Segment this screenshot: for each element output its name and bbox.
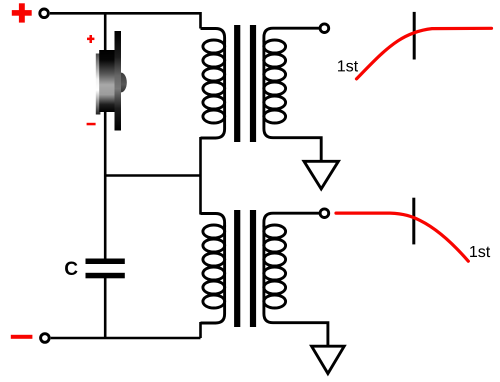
- input terminal (−): [41, 334, 50, 343]
- label − (speaker polarity): [87, 123, 96, 126]
- wire capacitor to bottom rail: [104, 278, 107, 338]
- wire mid horizontal: [105, 174, 200, 177]
- scope tick 1: [413, 12, 416, 60]
- transformer T2 secondary winding: [264, 213, 328, 346]
- wire T1 to T2 link: [199, 137, 202, 215]
- waveform trace 2: [336, 213, 468, 261]
- waveform trace 1: [357, 28, 492, 79]
- ground 2: [312, 346, 345, 373]
- label 1st (bottom): [470, 246, 490, 257]
- wire top rail: [50, 13, 201, 28]
- label + (speaker polarity): [87, 35, 94, 43]
- label C: [65, 262, 77, 275]
- positive supply symbol +: [12, 3, 32, 22]
- input terminal (+): [40, 9, 49, 18]
- scope tick 2: [412, 198, 415, 245]
- ground 1: [304, 161, 338, 189]
- transformer T2 core: [234, 210, 256, 327]
- capacitor C: [86, 259, 125, 279]
- label 1st (top): [338, 60, 358, 71]
- speaker: [96, 31, 127, 131]
- wire speaker to capacitor: [104, 111, 107, 260]
- transformer T1 secondary winding: [264, 28, 321, 161]
- output terminal 2: [320, 209, 329, 218]
- transformer T1 core: [234, 25, 256, 142]
- output terminal 1: [320, 24, 329, 33]
- transformer T2 primary winding: [201, 214, 225, 324]
- wire bottom rail: [51, 337, 201, 340]
- transformer T1 primary winding: [201, 29, 225, 139]
- negative supply symbol −: [11, 335, 33, 339]
- wire branch to speaker: [104, 13, 107, 52]
- wire T2 primary bottom link: [199, 322, 202, 338]
